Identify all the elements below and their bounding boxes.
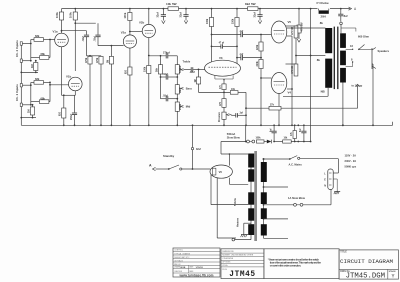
resistor 1M (V3 grid leak)	[195, 69, 201, 92]
node ch1 input bottom	[20, 103, 31, 106]
svg-text:8k2 5W: 8k2 5W	[245, 2, 256, 6]
note remark frame	[264, 249, 339, 279]
transformer PT heater winding a	[248, 208, 254, 220]
transformer PT sec3	[261, 208, 267, 219]
title block stage divider	[387, 269, 389, 279]
label stage Y	[392, 274, 395, 280]
table drawing-info rows	[173, 251, 220, 273]
svg-text:Y: Y	[392, 274, 395, 280]
wire to V2a grid	[98, 45, 124, 47]
capacitor .02uf (v1a couple)	[83, 31, 89, 56]
label NB (OT)	[321, 90, 325, 94]
svg-text:1MW: 1MW	[180, 87, 182, 93]
svg-text:www.turnbase.flb.com: www.turnbase.flb.com	[179, 273, 214, 277]
tube V1b	[66, 75, 82, 91]
svg-text:Slow Blow: Slow Blow	[227, 135, 241, 139]
table url row	[179, 273, 214, 277]
wire treble wiper to V3	[184, 67, 205, 74]
svg-text:V3: V3	[219, 56, 223, 60]
svg-text:A: A	[149, 164, 152, 168]
label STAGE	[389, 270, 397, 273]
label CIRCUIT DIAGRAM	[340, 258, 393, 265]
transformer PT HT winding upper	[248, 154, 254, 168]
wire heater tap 3	[264, 237, 289, 239]
resistor 220k (V4 grid)	[257, 60, 263, 126]
svg-text:Ch. 2 Inputs: Ch. 2 Inputs	[15, 40, 19, 57]
node ch2 input bottom	[20, 59, 31, 62]
resistor 100k (V2b cathode)	[144, 66, 151, 126]
wire ch2 jack bracket	[30, 44, 32, 61]
svg-text:.02uf: .02uf	[163, 96, 169, 98]
wire V6 anode top	[221, 153, 248, 165]
ground mains earth	[333, 179, 340, 194]
wire V2b cathode	[148, 38, 150, 66]
resistor 68k (ch1 b)	[31, 96, 50, 103]
choke P Choke 20H	[317, 1, 329, 18]
node ch1 input top	[20, 84, 31, 87]
wire bias row	[221, 141, 312, 143]
svg-text:NB: NB	[321, 90, 325, 94]
wire V5 plate	[287, 27, 326, 29]
svg-text:V2b: V2b	[139, 21, 144, 25]
svg-text:8uf: 8uf	[344, 14, 348, 18]
wire heater tap 1	[264, 186, 289, 188]
wire V3 plate R coupling	[236, 57, 240, 59]
label JTM45 (doc name)	[229, 271, 255, 279]
wire V5 grid	[261, 34, 272, 36]
wire cathode bus right	[287, 36, 293, 125]
svg-text:240V - 2A: 240V - 2A	[345, 159, 357, 163]
svg-text:47 pf: 47 pf	[219, 42, 225, 45]
transformer PT primary	[261, 162, 267, 182]
svg-text:.02uf: .02uf	[83, 36, 85, 42]
capacitor 8uF (after choke)	[338, 9, 347, 22]
svg-text:.02uf: .02uf	[94, 36, 96, 42]
svg-text:68k: 68k	[35, 34, 40, 38]
capacitor .02uf (v1b couple)	[94, 23, 100, 45]
svg-text:.1uf: .1uf	[239, 54, 243, 56]
resistor 220k (V5 grid)	[257, 34, 263, 51]
svg-text:470: 470	[219, 101, 222, 106]
transformer PT core	[254, 151, 257, 241]
svg-text:VIOLA: VIOLA	[222, 264, 228, 267]
wire ch1 ground	[20, 117, 36, 119]
wire PT heater centre tap	[244, 223, 251, 234]
title block divider	[339, 268, 398, 270]
wire V2a plate to V2b grid	[129, 31, 142, 33]
node reservoir feed	[191, 125, 201, 169]
tube V4	[271, 73, 291, 95]
resistor 820 (V2a cathode)	[126, 67, 132, 125]
wire V4 cathode	[278, 94, 280, 126]
capacitor .02uf (tone mid b)	[161, 96, 179, 102]
table drawn row	[174, 265, 203, 273]
svg-text:68k: 68k	[41, 52, 46, 56]
label Ch.1 Inputs	[15, 84, 19, 101]
note remark text	[268, 257, 322, 267]
diode (bias)	[267, 140, 272, 144]
label TITLE	[340, 251, 347, 253]
capacitor 250uF (V1 cathode)	[71, 95, 77, 125]
svg-text:CONTROL: CONTROL	[174, 250, 183, 252]
svg-text:820: 820	[60, 111, 62, 116]
svg-text:.02uf: .02uf	[189, 72, 195, 74]
wire ch1 join	[49, 82, 69, 102]
svg-text:32uf: 32uf	[156, 12, 160, 17]
wire ch2 join	[49, 39, 55, 58]
tube V5	[271, 20, 291, 43]
wire tone left lower	[160, 77, 162, 99]
wire B+ rail	[62, 8, 351, 10]
wire V3 plate L coupling	[211, 34, 241, 36]
svg-text:100k: 100k	[69, 12, 73, 18]
svg-text:V6: V6	[219, 170, 223, 174]
terminal A (top right)	[349, 7, 358, 11]
label 8k (OT mid)	[317, 58, 321, 62]
svg-text:8k: 8k	[320, 21, 324, 25]
wire bias to bus	[245, 125, 247, 141]
transformer PT HT winding mid	[248, 169, 254, 181]
resistor 470k (mix b)	[96, 56, 103, 126]
svg-text:Ch. 1 Inputs: Ch. 1 Inputs	[15, 84, 19, 101]
svg-text:Mid: Mid	[186, 105, 191, 109]
svg-text:N: N	[324, 186, 326, 188]
svg-text:Heaters: Heaters	[237, 217, 240, 227]
svg-text:10k 5W: 10k 5W	[166, 2, 177, 6]
wire PT left bus	[250, 154, 252, 240]
transformer OT secondary	[340, 33, 346, 82]
wire 8 ohm tap	[346, 58, 354, 67]
ground PT chassis	[241, 235, 248, 238]
svg-text:110V - 2A: 110V - 2A	[345, 154, 357, 158]
resistor 470 5W (V4 screen)	[286, 64, 298, 76]
fuse 500mA	[227, 132, 255, 143]
svg-text:on over in this order connecti: on over in this order connection.	[270, 263, 302, 267]
resistor 100k (V2a plate)	[123, 9, 132, 35]
svg-text:TITLE: TITLE	[340, 251, 347, 253]
capacitor 32uF (node2)	[178, 9, 188, 24]
svg-text:20H: 20H	[321, 15, 326, 19]
svg-text:100k: 100k	[233, 18, 235, 24]
transformer PT sec2	[261, 192, 267, 204]
svg-text:68k: 68k	[41, 96, 46, 100]
resistor 100k (V1b plate)	[69, 9, 78, 71]
resistor 100k (bias)	[256, 138, 265, 143]
table drawing-info frame	[173, 248, 220, 277]
wire ch2 ground	[20, 72, 38, 74]
svg-text:OPTIONS: OPTIONS	[222, 262, 231, 264]
svg-text:Treble: Treble	[183, 59, 191, 63]
svg-text:A.C. Mains: A.C. Mains	[289, 163, 303, 167]
resistor 56k (tone slope)	[157, 56, 163, 77]
resistor 47k (bias)	[290, 124, 296, 142]
svg-text:100k: 100k	[123, 12, 127, 18]
svg-text:1M: 1M	[30, 64, 34, 68]
svg-text:56k: 56k	[157, 67, 159, 72]
title block frame	[339, 250, 398, 279]
svg-text:8uf: 8uf	[300, 128, 302, 132]
svg-text:PLUS: PLUS	[222, 269, 227, 271]
wire OT secondary bottom	[342, 83, 344, 127]
svg-text:8k: 8k	[317, 58, 321, 62]
svg-text:STAGE: STAGE	[389, 270, 397, 273]
svg-text:Standby: Standby	[163, 154, 175, 158]
capacitor 27kpf (tone top)	[149, 51, 178, 59]
svg-text:1M: 1M	[27, 109, 31, 113]
wire V2b plate	[148, 9, 150, 25]
capacitor .1uf (presence)	[229, 112, 246, 117]
tube V2a	[121, 31, 137, 49]
svg-text:1M: 1M	[108, 60, 110, 63]
svg-text:.1uf: .1uf	[239, 112, 243, 114]
capacitor 8uF (bias b)	[300, 125, 306, 142]
label to 16 tap	[352, 83, 363, 87]
wire B+ to OT centre tap	[310, 9, 326, 142]
svg-text:820: 820	[126, 69, 128, 74]
wire V6 anode bottom	[217, 178, 236, 238]
switch A.C. Mains	[263, 156, 303, 167]
svg-text:5 Volts: 5 Volts	[234, 197, 237, 206]
resistor 10k (bias)	[283, 138, 292, 143]
svg-text:.02uf: .02uf	[163, 74, 169, 76]
svg-text:Presence: Presence	[219, 111, 221, 122]
svg-text:470k: 470k	[85, 57, 88, 63]
svg-text:250uf: 250uf	[71, 114, 73, 120]
resistor 100k (V1a plate)	[55, 9, 64, 34]
wire V6 cathode up	[220, 142, 222, 155]
table notes rows	[221, 253, 264, 267]
svg-text:100k: 100k	[256, 138, 262, 140]
resistor 27k (NFB)	[246, 105, 281, 110]
terminal A (standby)	[149, 164, 156, 171]
resistor 100k (V3 plate L)	[207, 9, 214, 62]
transformer OT primary lower	[325, 59, 332, 88]
svg-text:P Choke: P Choke	[317, 1, 329, 5]
resistor 68k (ch2 b)	[31, 52, 50, 59]
connector mains inlet	[324, 169, 333, 190]
wire 5V heater tap 1	[229, 178, 248, 185]
wire tail to NFB	[238, 92, 247, 125]
wire 16 ohm tap	[346, 44, 354, 50]
svg-text:100k: 100k	[55, 12, 59, 18]
svg-text:JTM45: JTM45	[229, 271, 255, 279]
svg-text:10k: 10k	[231, 89, 236, 91]
svg-text:1/11/93: 1/11/93	[196, 267, 204, 269]
wire V4 grid	[260, 77, 271, 79]
tube V3	[205, 56, 241, 76]
capacitor 8uF (bias a)	[270, 125, 276, 141]
capacitor .02uf (tone mid a)	[160, 74, 179, 80]
svg-text:50/60 cps: 50/60 cps	[345, 165, 357, 169]
resistor 47k 1W (rail tap)	[297, 9, 304, 42]
resistor 68k (ch2 a)	[31, 34, 50, 44]
wire V4 plate	[283, 88, 328, 96]
switch Standby	[156, 154, 182, 170]
pot 25k Mid	[175, 102, 190, 111]
label Ch.2 Inputs	[15, 40, 19, 57]
wire V3 cathode V	[215, 75, 233, 84]
transformer PT sec4	[261, 224, 267, 235]
transformer OT primary upper	[325, 28, 332, 53]
svg-text:ULTRA-LN: ULTRA-LN	[174, 260, 183, 263]
wire 600 ohm tap	[341, 28, 370, 38]
wire V2a cathode	[129, 48, 131, 67]
label Heaters	[237, 217, 240, 227]
transformer PT 5V winding	[248, 192, 254, 204]
pot 1M Bass	[175, 77, 192, 94]
label 5 Volts	[234, 197, 237, 206]
wire mix node	[87, 55, 102, 57]
wire speaker jack ground	[372, 64, 374, 126]
wire screens to B+	[295, 38, 311, 64]
wire NFB from 16 tap	[281, 84, 359, 108]
svg-text:1M: 1M	[195, 79, 197, 82]
tube V1a	[53, 30, 69, 47]
svg-text:32uf: 32uf	[252, 12, 256, 17]
capacitor .1uf (to V5)	[239, 31, 261, 37]
wire HT to fuse	[249, 142, 251, 154]
resistor 8k2 5W (rail)	[245, 2, 258, 10]
svg-text:1A Slow Blow: 1A Slow Blow	[288, 196, 306, 200]
svg-text:27k: 27k	[270, 105, 275, 107]
pot 5k Presence	[219, 107, 229, 125]
wire ch1 jack bracket	[30, 85, 32, 105]
svg-text:500kW: 500kW	[180, 65, 182, 73]
svg-text:600 Ohm: 600 Ohm	[358, 34, 370, 38]
wire 5V heater tap 2	[211, 175, 248, 205]
svg-text:V4: V4	[288, 91, 292, 95]
svg-text:.1uf: .1uf	[239, 31, 243, 33]
switch impedance selector	[358, 45, 366, 51]
svg-text:220k: 220k	[257, 61, 259, 67]
wire heater tap 2	[264, 218, 289, 220]
resistor 470 (V3 cathode)	[219, 92, 226, 107]
svg-text:CIRCUIT DIAGRAM: CIRCUIT DIAGRAM	[340, 258, 393, 265]
svg-text:220k: 220k	[257, 44, 259, 50]
label DWG No	[340, 271, 350, 273]
svg-text:Speakers: Speakers	[378, 49, 390, 53]
resistor 1M (ch1)	[27, 104, 35, 118]
label JTM45.DGM	[346, 273, 385, 281]
fuse 1A Slow Blow	[264, 190, 332, 207]
wire V1a plate tap	[61, 30, 87, 32]
pot 500k Treble	[175, 56, 190, 77]
wire mid pot ground	[176, 111, 178, 125]
svg-text:27kpf: 27kpf	[163, 51, 170, 55]
svg-text:32uf: 32uf	[178, 12, 182, 17]
svg-text:470k: 470k	[96, 57, 99, 63]
resistor 10k 5W (rail)	[166, 2, 179, 10]
capacitor .1uf (to V4)	[239, 54, 261, 60]
resistor 1M (ch2)	[30, 60, 38, 73]
speaker jack	[366, 48, 390, 70]
transformer OT core	[334, 27, 338, 90]
wire input feed vertical	[20, 42, 22, 125]
svg-text:V1b: V1b	[66, 75, 71, 79]
wire bass-mid link	[176, 94, 178, 102]
svg-text:OTHERWISE: OTHERWISE	[222, 258, 234, 260]
wire PT right bus	[263, 159, 265, 238]
wire V3 cathode line	[199, 92, 231, 94]
capacitor 32uF (node1)	[156, 9, 166, 24]
svg-text:32uf: 32uf	[196, 149, 201, 151]
table notes frame	[221, 249, 264, 279]
wire V1 cathode bus	[62, 47, 76, 96]
transformer PT heater winding b	[248, 224, 254, 235]
node OT secondary top terminal	[340, 22, 343, 33]
wire mains L	[300, 159, 339, 173]
svg-text:V5: V5	[288, 20, 292, 24]
svg-text:470 5W: 470 5W	[291, 26, 294, 35]
wire ground bus	[21, 122, 392, 126]
svg-text:V2a: V2a	[121, 31, 126, 35]
capacitor 47pf (plate bridge)	[211, 42, 238, 49]
resistor 470 (V3 tail upper)	[219, 84, 226, 93]
svg-text:NUMBER: UNLESS MARKED OTHER: NUMBER: UNLESS MARKED OTHER	[222, 254, 254, 257]
svg-text:V1a: V1a	[53, 30, 58, 34]
resistor 68k (ch1 a)	[31, 77, 50, 85]
svg-text:TYPICAL CHASSIS: TYPICAL CHASSIS	[174, 252, 191, 255]
resistor 470k (mix a)	[85, 56, 92, 126]
label mains voltages	[345, 154, 357, 169]
label 8k (OT)	[320, 21, 324, 25]
svg-text:MW-LN: MW-LN	[174, 264, 181, 266]
resistor 1M (mix c)	[108, 45, 114, 126]
wire bias mid node	[260, 51, 262, 60]
svg-text:100KHZ GMT NTC: 100KHZ GMT NTC	[174, 257, 190, 259]
svg-text:100k: 100k	[144, 66, 146, 72]
resistor 470 5W (V5 screen)	[286, 26, 298, 38]
svg-text:BOB: BOB	[181, 267, 186, 269]
svg-text:DIMENSIONS: DIMENSIONS	[222, 251, 234, 253]
resistor 100k (V3 plate R)	[233, 9, 240, 64]
node HT centre tap	[232, 238, 251, 241]
wire V1b plate tap	[74, 22, 95, 24]
table drawing-info text	[174, 250, 191, 266]
table notes text	[222, 251, 254, 271]
svg-text:47k 1W: 47k 1W	[300, 22, 304, 31]
resistor 10k (V3 tail)	[230, 89, 238, 94]
capacitor 32uF (node3)	[252, 9, 262, 24]
wire standby to rectifier	[182, 168, 210, 170]
tube V6	[210, 165, 232, 178]
svg-text:100k: 100k	[207, 18, 209, 24]
tube V2b	[139, 21, 155, 38]
svg-text:Bass: Bass	[186, 87, 193, 91]
svg-text:68k: 68k	[35, 77, 40, 81]
node ch2 input top	[20, 42, 31, 45]
svg-text:JTM45.DGM: JTM45.DGM	[346, 273, 385, 281]
resistor 820 (V1 cathode)	[60, 94, 66, 125]
svg-text:8uf: 8uf	[270, 128, 272, 132]
